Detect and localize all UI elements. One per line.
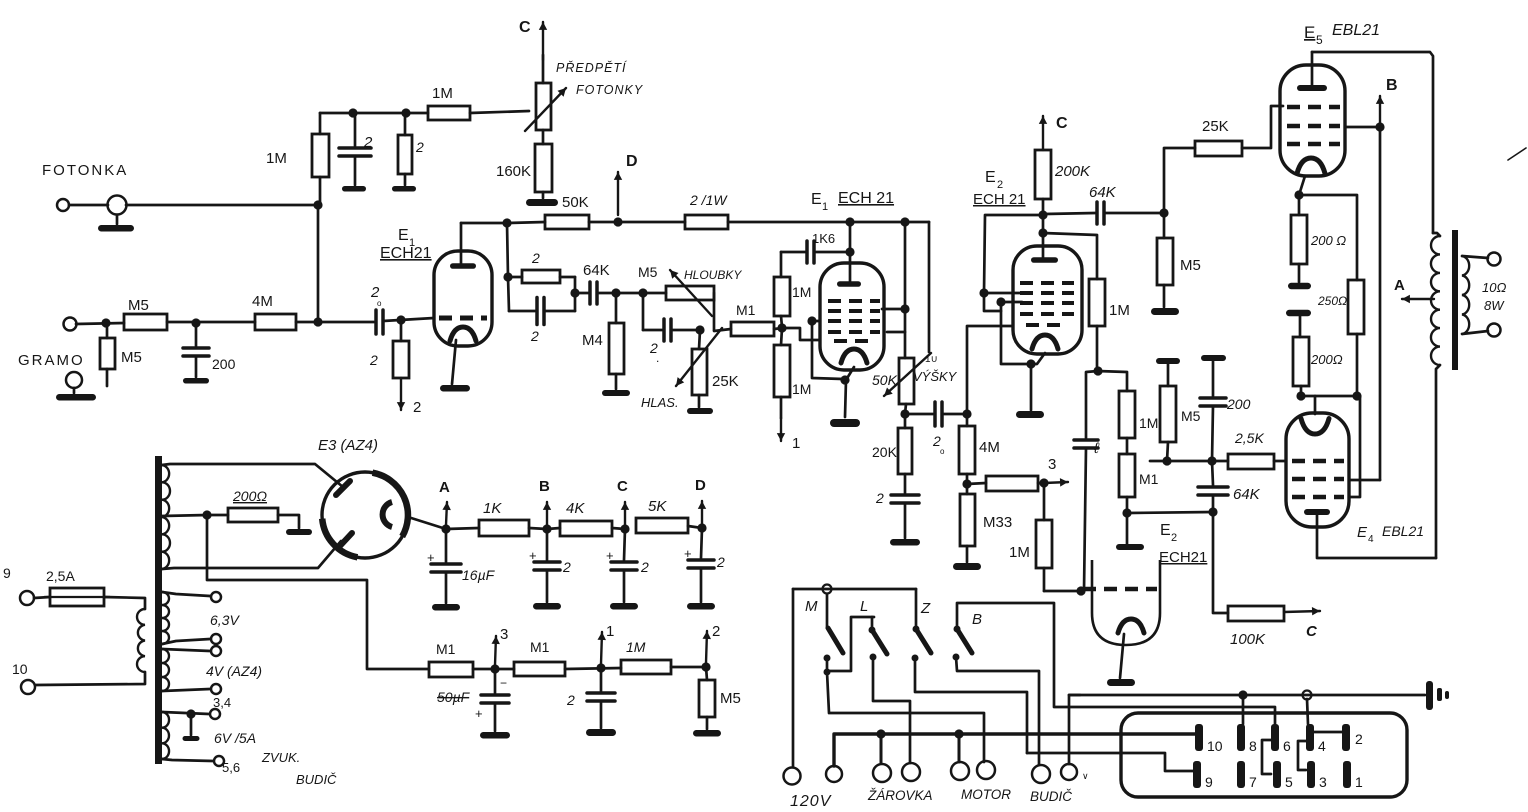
link pin4 to pin2: [1314, 731, 1342, 734]
capacitor 2 coupling (series): [376, 310, 383, 334]
terminal zarovka left: [873, 764, 891, 782]
svg-text:B: B: [539, 478, 550, 495]
svg-text:2: 2: [363, 134, 373, 151]
ground cap top left: [342, 186, 366, 192]
tube E1 heptode envelope: [434, 251, 492, 346]
jack fotonka with ground: [108, 196, 127, 215]
wire up to 25K: [1164, 148, 1195, 213]
resistor M1 bias (horizontal): [429, 662, 473, 677]
potentiometer M5 hloubky (horizontal): [666, 286, 714, 300]
ground cap 200: [183, 378, 209, 384]
capacitor 16uF: [445, 529, 448, 562]
node divider mid: [962, 479, 971, 488]
capacitor l (vertical, feedback): [1086, 371, 1098, 438]
contact Z: [912, 655, 919, 662]
wire center tap to bias row: [207, 515, 429, 669]
capacitor 50uF: [494, 669, 497, 693]
svg-text:160K: 160K: [496, 163, 531, 180]
wire to E2 grid feed: [984, 215, 1043, 293]
svg-text:+: +: [529, 548, 537, 563]
node B: [542, 524, 551, 533]
svg-text:A: A: [439, 479, 450, 496]
connector pin 9: [1193, 761, 1201, 788]
node gramo-3 junction with fotonka line: [313, 317, 322, 326]
arrow down to node 1: [780, 418, 782, 441]
connector pin 8: [1237, 724, 1245, 751]
svg-text:25K: 25K: [1202, 118, 1229, 135]
resistor 2 grid leak (vertical): [400, 320, 403, 341]
terminal motor left: [951, 762, 969, 780]
resistor 25K E5 grid (horizontal): [1195, 141, 1242, 156]
switch L blade: [869, 627, 876, 634]
contact M: [824, 655, 831, 662]
svg-text:5: 5: [1285, 774, 1293, 790]
svg-text:4M: 4M: [252, 293, 273, 310]
wire x929 from anode line down to wiper: [928, 222, 931, 352]
capacitor 2 parallel branch: [508, 277, 509, 311]
jack gramo with ground: [66, 372, 82, 388]
secondary leads and terminals: [1462, 256, 1488, 258]
wire anode to 50K node: [461, 222, 507, 225]
resistor 1K: [479, 520, 529, 536]
svg-text:HLAS.: HLAS.: [641, 395, 679, 410]
connector pin 2: [1342, 724, 1350, 751]
wire B line down: [1379, 127, 1382, 480]
potentiometer predpeti (vertical): [542, 55, 545, 83]
output transformer core: [1452, 230, 1458, 370]
ground 160K: [542, 192, 545, 198]
wire 2/1W to E1 triode anode node: [728, 221, 850, 224]
node E1 triode anode: [845, 217, 854, 226]
wire 25K to E5 grid: [1242, 106, 1283, 148]
svg-text:1K: 1K: [483, 500, 502, 517]
wire top bias line: [320, 112, 428, 115]
svg-text:D: D: [626, 153, 638, 170]
wire cathode right to 250 branch: [1299, 195, 1357, 280]
resistor M5 shunt (vertical): [106, 323, 109, 338]
svg-text:1M: 1M: [792, 381, 811, 397]
capacitor 2 (series to 4M): [905, 413, 933, 416]
svg-text:E3 (AZ4): E3 (AZ4): [318, 437, 378, 454]
contact L: [870, 654, 877, 661]
grid dash rows E1 triode: [828, 299, 880, 303]
tube E2 heptode envelope: [1013, 246, 1082, 354]
node E2 triode grid: [1076, 586, 1085, 595]
wire 1M bottom to E2 triode grid: [1044, 590, 1081, 593]
cathode lead E2 triode: [1120, 634, 1124, 678]
node E2 cathode: [1026, 359, 1035, 368]
anode bar E2 triode: [1126, 513, 1129, 545]
node 250 bottom: [1352, 391, 1361, 400]
wire M contact to motor: [827, 672, 984, 762]
cathode arc E1 heptode: [450, 327, 476, 341]
grid leads left E2: [979, 288, 988, 297]
svg-text:o: o: [940, 447, 945, 456]
svg-text:BUDIČ: BUDIČ: [296, 772, 337, 787]
resistor 1M E2t (vertical): [1119, 391, 1135, 438]
resistor M1 E2t (vertical): [1119, 454, 1135, 497]
terminal pin4 feed: [1303, 691, 1312, 700]
filament winding 6.3V: [162, 592, 169, 644]
wire fotonka to junction: [69, 204, 108, 207]
resistor 1M fotonka grid leak (vertical): [319, 113, 322, 134]
wire L contact to zarovka: [873, 657, 910, 763]
svg-text:1: 1: [822, 201, 828, 213]
svg-text:25K: 25K: [712, 373, 739, 390]
svg-text:4: 4: [1318, 738, 1326, 754]
wire B contact to budic left: [956, 657, 1039, 765]
resistor 4M (horizontal): [255, 314, 296, 330]
svg-text:100K: 100K: [1230, 631, 1266, 648]
arrow node 2 up: [706, 631, 707, 663]
node pin8 feed: [1238, 690, 1247, 699]
node motor feed: [954, 729, 963, 738]
svg-text:200Ω: 200Ω: [232, 488, 267, 504]
filament winding 4V: [162, 649, 169, 691]
svg-text:M5: M5: [1181, 408, 1201, 424]
wire budic right up to ground line: [1069, 695, 1080, 764]
node D: [613, 217, 622, 226]
mains bold wire to pin 10: [834, 734, 1199, 766]
link pin4 to pin3: [1298, 741, 1306, 770]
grid dash rows E2 heptode: [1020, 281, 1074, 285]
svg-text:ECH21: ECH21: [1159, 549, 1207, 566]
svg-text:250Ω: 250Ω: [1317, 294, 1347, 308]
svg-text:2: 2: [640, 559, 649, 575]
resistor M1 (horizontal, to E1 triode grid): [714, 329, 731, 331]
connector pin 7: [1237, 761, 1245, 788]
connector pin 10: [1195, 724, 1203, 751]
svg-text:2: 2: [531, 250, 540, 266]
wire fuse to primary: [104, 597, 145, 609]
grid2 lead E4 to B line: [1349, 479, 1380, 482]
primary bottom lead to terminal 10: [36, 672, 145, 685]
resistor 2 (vertical, top): [404, 113, 407, 135]
svg-text:E: E: [1357, 524, 1368, 541]
wire E5 anode to transformer top: [1312, 52, 1433, 233]
switch M blade: [826, 594, 829, 628]
svg-text:4M: 4M: [979, 439, 1000, 456]
wire x905 vertical: [904, 222, 907, 358]
node vysky bottom: [900, 409, 909, 418]
arrow B up: [546, 502, 548, 525]
svg-text:2: 2: [415, 139, 424, 155]
svg-text:M1: M1: [436, 641, 456, 657]
capacitor 2 below 20K: [891, 495, 919, 503]
svg-text:1: 1: [792, 435, 800, 452]
svg-text:20K: 20K: [872, 444, 898, 460]
node RC right: [570, 288, 579, 297]
svg-text:9: 9: [1205, 774, 1213, 790]
svg-text:6V /5A: 6V /5A: [214, 730, 256, 746]
svg-text:M5: M5: [128, 297, 149, 314]
node E2t top junction: [1093, 366, 1102, 375]
svg-text:5K: 5K: [648, 498, 667, 515]
capacitor 2 at D: [701, 528, 702, 558]
wire A row: [446, 528, 479, 529]
switch B blade: [957, 603, 1275, 724]
node 6V winding tap with ground: [186, 709, 195, 718]
svg-text:E: E: [811, 191, 822, 208]
svg-text:2: 2: [566, 692, 575, 708]
cathode lead E1 triode: [845, 367, 854, 417]
ground E2 heptode cathode: [1016, 411, 1044, 418]
grid dash row E1 heptode: [439, 316, 487, 321]
svg-text:64K: 64K: [1233, 486, 1261, 503]
node M lower: [824, 669, 831, 676]
svg-text:50K: 50K: [872, 372, 898, 388]
wire junction down to gramo line: [317, 205, 320, 322]
svg-text:1M: 1M: [266, 150, 287, 167]
connector pin 5: [1273, 761, 1281, 788]
ground M4: [602, 390, 630, 396]
svg-text:2: 2: [530, 328, 539, 344]
wire anode node right to 1M: [1043, 233, 1097, 279]
node E2 anode top: [1038, 210, 1047, 219]
svg-text:C: C: [1056, 115, 1068, 132]
svg-text:GRAMO: GRAMO: [18, 352, 85, 369]
svg-text:2: 2: [716, 554, 725, 570]
svg-text:M5: M5: [1180, 257, 1201, 274]
anode bar E4: [1304, 509, 1330, 515]
HV winding: [162, 465, 170, 569]
grid dash rows E5: [1287, 105, 1340, 110]
svg-text:+: +: [427, 550, 435, 565]
capacitor 2 (shunt, top left): [354, 113, 357, 146]
capacitor 2 at C: [624, 529, 625, 560]
wire down to 100K: [1213, 512, 1228, 613]
anode bar E5: [1297, 85, 1327, 91]
anode top lead E5: [1311, 52, 1314, 87]
cathode top lead E4: [1314, 396, 1317, 414]
svg-text:C: C: [617, 478, 628, 495]
svg-text:+: +: [684, 546, 692, 561]
svg-text:ŽÁROVKA: ŽÁROVKA: [867, 788, 933, 803]
svg-text:2: 2: [997, 179, 1003, 191]
svg-text:200Ω: 200Ω: [1310, 352, 1343, 367]
svg-text:2: 2: [413, 399, 421, 416]
node C: [620, 524, 629, 533]
tick mark top right: [1508, 148, 1526, 160]
node 3 junction: [1039, 478, 1048, 487]
terminal zarovka right: [902, 763, 920, 781]
svg-text:ECH 21: ECH 21: [973, 191, 1026, 208]
connector pin 1: [1343, 761, 1351, 788]
svg-text:ECH21: ECH21: [380, 245, 432, 262]
svg-text:M33: M33: [983, 514, 1012, 531]
node bias-2: [1207, 456, 1216, 465]
svg-text:2: 2: [1355, 731, 1363, 747]
arrow node 1 up: [601, 632, 602, 664]
node RC left: [503, 272, 512, 281]
switch Z blade: [915, 589, 918, 629]
cathode arc E2 triode: [1118, 619, 1144, 633]
connector block outline: [1121, 713, 1407, 797]
grid3 right lead: [887, 331, 905, 334]
E3 plate pins: [336, 481, 350, 495]
node gramo-1: [101, 318, 110, 327]
resistor M5 bias (vertical): [706, 667, 707, 680]
svg-text:D: D: [695, 477, 706, 494]
node center tap: [202, 510, 211, 519]
terminal M switch top: [823, 585, 832, 594]
wire anode top line: [850, 221, 929, 224]
connector pin 6: [1271, 724, 1279, 751]
svg-text:EBL21: EBL21: [1332, 22, 1380, 39]
resistor 1M upper (vertical): [780, 252, 783, 277]
svg-text:M1: M1: [736, 302, 756, 318]
capacitor 200 shunt: [195, 323, 198, 346]
wire mains top: [793, 588, 916, 591]
node 64K out: [1159, 208, 1168, 217]
E3 output lead to node A: [408, 517, 446, 529]
node cathode: [840, 375, 849, 384]
svg-text:200K: 200K: [1054, 163, 1091, 180]
node E1 grid: [396, 315, 405, 324]
anode lead into tube: [1042, 233, 1045, 258]
capacitor 200 lower: [1212, 358, 1215, 396]
capacitor at node 1: [600, 668, 603, 691]
terminal motor right: [977, 761, 995, 779]
arrow hlas wiper: [676, 328, 722, 386]
wire grid node into tube: [783, 328, 820, 340]
node top-1: [348, 108, 357, 117]
arrow A up: [446, 502, 447, 525]
svg-text:HLOUBKY: HLOUBKY: [684, 268, 742, 282]
capacitor 64K lower: [1212, 461, 1213, 485]
svg-text:1M: 1M: [432, 85, 453, 102]
anode bar E2 heptode: [1031, 257, 1058, 263]
node top-2: [401, 108, 410, 117]
resistor 200ohm upper (vertical): [1298, 195, 1301, 215]
node E5 grid2: [1375, 122, 1384, 131]
anode top lead E1 heptode: [460, 223, 463, 265]
grid1 left lead: [812, 321, 843, 379]
cathode lead and ground E1 heptode: [452, 340, 456, 384]
wire 4M to coupling cap: [296, 321, 374, 324]
HV top lead to E3 plate: [162, 464, 343, 487]
wire chassis ground line: [1069, 694, 1425, 697]
arrow C supply E2: [1042, 116, 1044, 150]
resistor 20K (vertical): [904, 414, 907, 428]
svg-text:9: 9: [3, 565, 11, 581]
cathode arc E2 heptode: [1032, 335, 1058, 349]
resistor 100K (horizontal): [1228, 606, 1284, 621]
ground M33: [953, 563, 981, 570]
resistor 1M (vertical right): [1043, 483, 1046, 520]
resistor 250ohm (vertical): [1348, 280, 1364, 334]
svg-text:200: 200: [212, 356, 236, 372]
resistor 2/1W (horizontal): [685, 215, 728, 229]
ground E1 triode cathode: [830, 419, 860, 427]
arrow node 3 up: [495, 636, 496, 665]
svg-text:1K6: 1K6: [812, 231, 835, 246]
6V bottom lead: [162, 759, 213, 761]
capacitor 1K6 (series): [816, 251, 850, 254]
contact B: [953, 654, 960, 661]
wire D node to 2/1W: [618, 221, 685, 224]
node A: [441, 524, 450, 533]
arrow C out: [1284, 611, 1320, 612]
capacitor 64K (series): [575, 292, 589, 295]
node 25K top: [695, 325, 704, 334]
wire RC right vertical: [574, 277, 577, 311]
svg-text:+: +: [606, 548, 614, 563]
svg-text:.: .: [656, 351, 659, 365]
ground M5 bias: [693, 730, 721, 737]
svg-text:EBL21: EBL21: [1382, 523, 1424, 539]
chassis ground symbol: [1426, 681, 1433, 710]
svg-text:2: 2: [875, 490, 884, 506]
switch L top bracket: [829, 617, 874, 671]
resistor 200K (vertical): [1035, 150, 1051, 199]
resistor 25K E4 grid (horizontal): [1228, 454, 1274, 469]
svg-text:64K: 64K: [583, 262, 610, 279]
wire chain bottom: [1301, 395, 1357, 398]
svg-text:1∪: 1∪: [925, 354, 938, 365]
resistor 1M lower (vertical): [781, 328, 782, 345]
resistor 1M bias (horizontal): [621, 660, 671, 674]
svg-text:PŘEDPĚTÍ: PŘEDPĚTÍ: [556, 60, 628, 75]
svg-text:3,4: 3,4: [213, 695, 231, 710]
arrow C supply up: [542, 22, 544, 60]
arrow node 3: [1044, 482, 1068, 483]
anode bar E1 heptode: [450, 263, 476, 269]
svg-text:6,3V: 6,3V: [210, 612, 240, 628]
anode bar E1 triode: [849, 252, 852, 283]
svg-text:BUDIČ: BUDIČ: [1030, 789, 1072, 804]
svg-text:1M: 1M: [626, 639, 646, 655]
svg-text:50µF: 50µF: [437, 689, 471, 705]
svg-text:E: E: [398, 227, 409, 244]
arrow B supply: [1379, 96, 1381, 125]
svg-text:7: 7: [1249, 774, 1257, 790]
node 4M top: [962, 409, 971, 418]
resistor 5K: [636, 518, 688, 533]
node 64K bottom: [1208, 507, 1217, 516]
svg-text:3: 3: [500, 626, 508, 643]
svg-text:1M: 1M: [1109, 302, 1130, 319]
node 50K left: [502, 218, 511, 227]
resistor 4M (vertical): [966, 414, 969, 426]
svg-text:64K: 64K: [1089, 184, 1117, 201]
svg-text:16µF: 16µF: [462, 567, 496, 583]
cathode arc E1 triode: [841, 349, 867, 363]
svg-text:M: M: [805, 598, 818, 615]
ground node1 cap: [586, 729, 616, 736]
svg-text:M1: M1: [1139, 471, 1159, 487]
ground resistor 2 top: [392, 186, 416, 192]
svg-text:M1: M1: [530, 639, 550, 655]
resistor M5 E5 grid leak (vertical): [1163, 213, 1166, 238]
capacitor 2 hloubky (series): [642, 293, 645, 330]
ground E2 triode cathode: [1107, 679, 1135, 686]
svg-text:C: C: [519, 19, 531, 36]
resistor to node 3 (horizontal): [967, 483, 986, 484]
resistor M1 second (horizontal): [514, 662, 565, 676]
node cathode chain bottom: [1296, 391, 1305, 400]
node 1 bias: [596, 663, 605, 672]
svg-text:3: 3: [1048, 456, 1056, 473]
svg-text:C: C: [1306, 623, 1318, 640]
terminal budic left: [1032, 765, 1050, 783]
cathode arc E4 (top, inverted): [1301, 419, 1329, 435]
connector pin 4: [1306, 724, 1314, 751]
resistor 2 (series horizontal): [508, 276, 522, 279]
node M4 top: [611, 288, 620, 297]
svg-text:MOTOR: MOTOR: [961, 787, 1011, 802]
link pin6 to pin5: [1262, 740, 1271, 774]
